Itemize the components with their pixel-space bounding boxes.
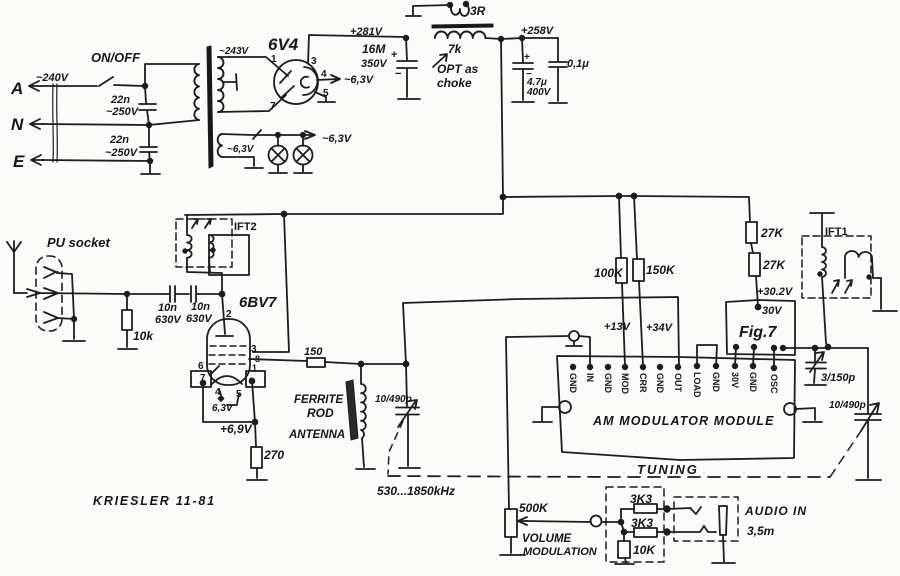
svg-text:1: 1 (271, 54, 277, 65)
ground below 10K (615, 563, 634, 565)
svg-text:10K: 10K (633, 543, 656, 557)
resistor 270 cathode (251, 422, 284, 478)
resistor 100K (594, 196, 627, 366)
svg-text:16M: 16M (362, 42, 386, 56)
wire 27k to 30V node (756, 276, 758, 307)
wiper wire with feedthrough to divider (526, 516, 621, 527)
svg-text:E: E (13, 152, 25, 171)
svg-text:CRR: CRR (638, 373, 648, 393)
svg-text:270: 270 (263, 448, 284, 462)
audio jack dashed box (674, 497, 738, 541)
node A mains active terminal (10, 79, 42, 98)
svg-text:~250V: ~250V (106, 106, 140, 118)
ground bar below trimmer (805, 384, 826, 386)
mains cable double lines (53, 84, 58, 162)
dial lamp 2 (294, 135, 313, 173)
svg-text:6BV7: 6BV7 (239, 294, 277, 311)
svg-text:530...1850kHz: 530...1850kHz (377, 484, 455, 498)
svg-text:TUNING: TUNING (637, 462, 699, 477)
IFT2 secondary coil (209, 235, 214, 258)
potentiometer 500K volume (505, 501, 549, 553)
svg-text:7: 7 (270, 101, 276, 112)
pentode tube 6BV7 envelope (207, 319, 250, 385)
IFT1 phasing dot primary (818, 272, 822, 276)
dashed gang link left (388, 421, 403, 474)
svg-text:350V: 350V (361, 58, 388, 70)
6V4 cathode (301, 67, 318, 95)
junction trimmer node (813, 346, 818, 351)
wire 6V4 pin3 to +281V rail (308, 35, 406, 64)
IFT1 dashed can outline (802, 236, 871, 298)
junction HT rail node (501, 195, 506, 200)
ground below 16M cap (398, 98, 420, 100)
svg-text:3: 3 (311, 56, 317, 67)
ground below PU socket (63, 319, 85, 341)
IFT2 tuning slug arrows (192, 219, 211, 228)
svg-text:+281V: +281V (350, 26, 384, 38)
svg-text:10n: 10n (191, 301, 210, 313)
svg-text:ROD: ROD (307, 406, 334, 420)
svg-text:6: 6 (198, 361, 204, 372)
antenna coil (361, 365, 366, 467)
wire to jack ring contact (667, 526, 716, 532)
6BV7 base box right (246, 371, 265, 387)
junction E node (148, 159, 153, 164)
ground below 270 (247, 479, 267, 481)
aerial symbol (7, 241, 21, 293)
rectifier tube 6V4 envelope (274, 60, 318, 104)
svg-text:LOAD: LOAD (692, 372, 702, 398)
wire choke to +258V node (485, 38, 558, 39)
transformer T1 core (207, 46, 213, 168)
IFT1 secondary coil (845, 251, 873, 278)
svg-text:+258V: +258V (521, 25, 555, 37)
ground below 4.7u cap (512, 101, 534, 103)
wire +258V rail down to HT bus (501, 39, 503, 197)
AM modulator module box (557, 356, 795, 460)
junction divider mid node (622, 530, 627, 535)
6V4 anode plates (280, 71, 294, 97)
jumper LOAD to GND (697, 345, 717, 366)
ground below oscillator tuning cap (856, 479, 881, 481)
svg-text:+30.2V: +30.2V (757, 286, 794, 298)
choke OPT primary 7k (435, 31, 485, 56)
junction tank left node (359, 362, 364, 367)
capacitor 0.1u (549, 38, 589, 101)
junction cathode resistor node (253, 420, 258, 425)
junction cathode right node (250, 379, 255, 384)
PU socket dashed outline (36, 256, 62, 331)
junction HT line to 6BV7 anode (282, 212, 287, 217)
junction 100k node (617, 194, 622, 199)
svg-text:10/490p: 10/490p (829, 400, 866, 411)
IFT1 primary coil (822, 247, 826, 277)
svg-text:OUT: OUT (673, 373, 683, 393)
transformer T1 primary winding (194, 64, 199, 120)
HT bus line to bias resistors (503, 196, 750, 222)
svg-text:A: A (10, 79, 23, 98)
svg-text:PU socket: PU socket (47, 235, 111, 250)
svg-text:100K: 100K (594, 266, 624, 280)
wire IFT2 bottoms to capacitor node (187, 258, 222, 294)
wire 6V4 pin4 heater arrow (317, 75, 340, 83)
svg-text:GND: GND (655, 373, 665, 394)
module pin CRR (638, 365, 648, 393)
wire N line (42, 120, 199, 125)
svg-text:OSC: OSC (769, 374, 779, 394)
svg-text:150: 150 (304, 346, 323, 358)
module pin LOAD (692, 364, 702, 398)
module pin GND 3 (655, 365, 665, 394)
IFT2 dashed can outline (176, 219, 232, 267)
oscillator tank right wire (867, 348, 869, 413)
svg-text:10n: 10n (158, 302, 177, 314)
capacitor 22n lower (105, 125, 157, 161)
svg-text:MODULATION: MODULATION (523, 546, 598, 558)
wire socket contact 1 to frame (57, 273, 74, 319)
IFT2 solid box (209, 235, 249, 275)
ground below jack sleeve (712, 562, 735, 564)
heater pin 5 stub (227, 394, 239, 405)
junction wiper node (619, 520, 624, 525)
secondary centre tap stub (223, 74, 237, 90)
svg-text:3R: 3R (470, 4, 486, 18)
svg-text:choke: choke (437, 76, 472, 90)
svg-text:27K: 27K (760, 226, 784, 240)
IFT2 phasing dots (183, 249, 187, 253)
junction 3K3 lower output (664, 529, 670, 535)
svg-text:3,5m: 3,5m (747, 524, 775, 538)
resistor 10K divider (618, 541, 656, 563)
Fig.7 pin 30V (734, 345, 739, 350)
resistor 150 screen (249, 346, 361, 367)
IFT1 tuning slug arrows (832, 280, 852, 293)
svg-text:4: 4 (321, 69, 327, 80)
svg-text:1: 1 (252, 363, 257, 373)
resistor 150K (633, 196, 676, 366)
wire aerial to signal line with arrow (14, 289, 166, 297)
wire to jack tip contact (667, 507, 701, 514)
module pin OUT (673, 365, 683, 393)
junction PU frame node (72, 317, 77, 322)
svg-text:7k: 7k (448, 42, 463, 56)
heater winding bottom to ground (222, 157, 263, 168)
capacitor 10n 630V first (155, 286, 189, 326)
trimmer capacitor 3/150p (806, 348, 856, 384)
variable capacitor 10/490p aerial section (375, 364, 419, 466)
svg-text:3K3: 3K3 (630, 492, 652, 506)
ferrite rod (346, 380, 358, 440)
svg-text:30V: 30V (762, 305, 783, 317)
junction 150k node (632, 194, 637, 199)
wire IFT1 primary to tank line (822, 277, 828, 347)
junction choke output (499, 37, 504, 42)
svg-text:+13V: +13V (604, 321, 632, 333)
wire E line (42, 160, 150, 161)
wire cathode network (203, 381, 257, 422)
OPT core bar (432, 24, 493, 28)
svg-text:500K: 500K (519, 501, 549, 515)
svg-text:~243V: ~243V (219, 46, 250, 57)
capacitor 4.7u 400V electrolytic (513, 38, 552, 100)
svg-text:N: N (11, 115, 24, 134)
Fig.7 pin tank (781, 346, 786, 351)
svg-text:630V: 630V (155, 314, 182, 326)
svg-text:GND: GND (603, 373, 613, 394)
module pin GND 4 (711, 364, 721, 393)
6BV7 grid 3 tick (212, 366, 219, 373)
6BV7 grid dashes (209, 346, 249, 364)
PU socket contact 3 (44, 312, 58, 323)
heater pin 4 stub (219, 389, 221, 395)
module pin GND 5 (748, 364, 758, 393)
svg-text:GND: GND (711, 372, 721, 393)
svg-text:AM MODULATOR MODULE: AM MODULATOR MODULE (592, 414, 775, 428)
dashed tuning gang line (388, 476, 830, 477)
svg-text:GND: GND (568, 373, 578, 394)
svg-text:0,1μ: 0,1μ (567, 58, 589, 70)
svg-text:OPT as: OPT as (437, 62, 479, 76)
resistor 27K lower (749, 253, 786, 276)
svg-text:IN: IN (585, 373, 595, 382)
svg-text:6V4: 6V4 (268, 35, 299, 54)
divider vertical wire (621, 509, 624, 541)
dial lamp 1 (269, 135, 288, 173)
svg-text:10/490p: 10/490p (375, 394, 412, 405)
wire tank node to tuning cap (361, 363, 406, 365)
svg-text:FERRITE: FERRITE (294, 394, 344, 406)
svg-text:~240V: ~240V (36, 72, 70, 84)
junction N node (147, 123, 152, 128)
wire grid pin 2 into tube (222, 294, 225, 334)
svg-text:30V: 30V (730, 372, 740, 388)
module pin GND 1 (568, 365, 578, 394)
junction +258V node (520, 36, 525, 41)
resistor 3K3 lower (624, 516, 667, 537)
wire Fig.7 tank pin to oscillator tank (783, 347, 868, 349)
svg-text:22n: 22n (109, 134, 129, 146)
jack sleeve (719, 506, 727, 562)
junction lamp 2 node (301, 133, 305, 137)
label FERRITE ROD ANTENNA (288, 394, 345, 441)
wire HT line to IFT2 (185, 197, 503, 215)
resistor 10k grid leak (122, 294, 154, 347)
svg-text:400V: 400V (526, 87, 552, 98)
junction 3K3 upper output (664, 506, 670, 512)
node E mains earth terminal (13, 152, 44, 171)
svg-text:~250V: ~250V (105, 147, 139, 159)
svg-text:27K: 27K (762, 258, 786, 272)
IFT1 secondary to chassis (873, 278, 897, 311)
IFT1 phasing dot secondary (867, 275, 871, 279)
svg-text:3/150p: 3/150p (821, 372, 856, 384)
feedthrough capacitor at IN (506, 331, 590, 367)
wire secondary bottom to 6V4 plate pin 7 (218, 95, 286, 112)
ground below 0.1u cap (549, 102, 567, 104)
ground below E node (141, 161, 160, 174)
wire contact 3 to frame node (58, 318, 74, 319)
svg-text:150K: 150K (646, 263, 676, 277)
ground below aerial tuning cap (399, 467, 420, 469)
svg-text:GND: GND (748, 372, 758, 393)
svg-text:−: − (395, 68, 401, 80)
svg-text:10k: 10k (133, 329, 154, 343)
transformer T1 heater winding 6.3V (218, 134, 222, 157)
junction 30V node (756, 305, 761, 310)
svg-text:ANTENNA: ANTENNA (288, 429, 345, 441)
module pin 30V (730, 364, 740, 388)
wire A line to switch (42, 85, 97, 87)
junction lamp 1 node (276, 133, 280, 137)
svg-text:+34V: +34V (646, 322, 674, 334)
svg-text:IFT2: IFT2 (234, 221, 257, 233)
module pin MOD (620, 365, 630, 395)
wire secondary top to 6V4 plate pin 1 (218, 57, 288, 76)
svg-text:ON/OFF: ON/OFF (91, 50, 141, 65)
svg-text:Fig.7: Fig.7 (739, 324, 777, 341)
svg-text:3K3: 3K3 (631, 516, 653, 530)
module internal bypass left (533, 401, 571, 422)
6BV7 cathode arc (212, 376, 242, 384)
divider dashed box (606, 487, 664, 562)
module internal bypass right (784, 403, 822, 422)
module pin IN (585, 365, 595, 382)
transformer T1 HT secondary winding (218, 57, 224, 112)
Fig.7 pin OSC (772, 346, 777, 351)
capacitor 10n 630V second (186, 286, 222, 325)
svg-text:KRIESLER 11-81: KRIESLER 11-81 (93, 494, 216, 508)
svg-text:630V: 630V (186, 313, 213, 325)
svg-text:~6,3V: ~6,3V (322, 133, 353, 145)
6BV7 base box left (191, 371, 211, 387)
annotation arrow OPT as choke (433, 54, 479, 90)
svg-text:+: + (391, 49, 397, 61)
OPT speaker secondary winding W 3R (406, 2, 486, 18)
wire anode feed down to 6BV7 pin 3 (253, 214, 289, 352)
variable capacitor 10/490p oscillator section (829, 400, 881, 478)
PU socket contact 1 (44, 267, 58, 278)
PU socket contact 2 (44, 288, 58, 299)
svg-text:+6,9V: +6,9V (220, 422, 253, 436)
IFT2 primary coil (187, 235, 192, 258)
svg-text:AUDIO IN: AUDIO IN (744, 504, 807, 518)
junction tuning cap node (404, 362, 409, 367)
IFT1 supply stub bar (810, 213, 834, 247)
6BV7 top grid cap bar (216, 335, 233, 337)
wire tank to module OUT (403, 297, 679, 366)
junction grid input node (125, 292, 130, 297)
wires Fig.7 pins to module (735, 347, 774, 367)
junction cathode left node (201, 381, 206, 386)
resistor 3K3 upper (621, 492, 667, 513)
oscillator block Fig.7 (726, 300, 795, 355)
switch ON/OFF (91, 50, 145, 86)
svg-text:~6,3V: ~6,3V (344, 74, 375, 86)
junction A-switch node (143, 84, 148, 89)
junction IFT1 node (826, 345, 831, 350)
node N mains neutral terminal (11, 115, 44, 134)
module pin GND 2 (603, 365, 613, 394)
svg-text:MOD: MOD (620, 373, 630, 394)
svg-text:VOLUME: VOLUME (522, 533, 572, 545)
heater pin 4 dot (219, 396, 224, 401)
junction 10n to IFT2 node (220, 292, 225, 297)
wire between 27k resistors (751, 243, 753, 253)
svg-text:~6,3V: ~6,3V (227, 144, 255, 155)
dashed gang link right (830, 431, 861, 477)
resistor 27K upper (746, 222, 784, 243)
wire IFT2 primary top to HT line (186, 215, 188, 235)
6V4 pin5 ground (315, 92, 335, 102)
wire heater line with arrow ~6,3V (222, 130, 353, 145)
ground below 500K pot (500, 554, 525, 556)
capacitor 16M 350V electrolytic (361, 36, 417, 97)
Fig.7 pin GND (752, 345, 757, 350)
label VOLUME MODULATION (522, 533, 598, 558)
svg-text:22n: 22n (110, 94, 130, 106)
ground below antenna coil (356, 468, 375, 470)
svg-text:+: + (524, 52, 530, 63)
wire switch node up to transformer primary top (145, 64, 199, 86)
module pin OSC (769, 366, 779, 394)
capacitor 22n upper (106, 86, 156, 125)
ground below 10k (118, 348, 137, 350)
wire module IN line down to volume pot (506, 338, 509, 509)
